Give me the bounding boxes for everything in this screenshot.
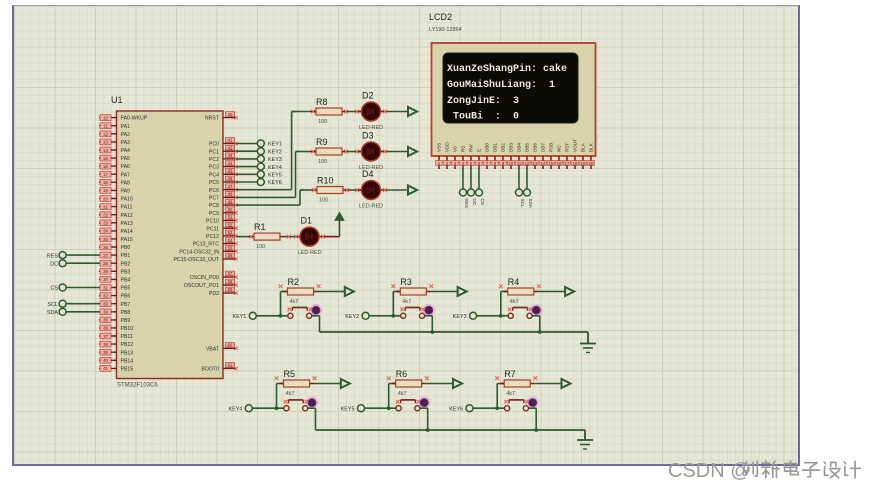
svg-text:PB7: PB7 (121, 302, 131, 308)
svg-text:DB6: DB6 (533, 143, 538, 152)
svg-text:PB6: PB6 (121, 294, 131, 300)
svg-text:47: 47 (228, 184, 233, 189)
svg-text:LED-RED: LED-RED (359, 204, 383, 210)
svg-text:RW: RW (469, 144, 474, 152)
svg-text:LY190-12864: LY190-12864 (429, 27, 462, 33)
svg-text:PA15: PA15 (121, 237, 133, 243)
svg-text:51: 51 (228, 215, 233, 220)
svg-text:PB13: PB13 (121, 350, 134, 356)
svg-text:PC9: PC9 (209, 211, 219, 217)
svg-text:PA10: PA10 (121, 197, 133, 203)
svg-text:49: 49 (228, 199, 233, 204)
svg-text:48: 48 (228, 192, 233, 197)
svg-text:42: 42 (228, 145, 233, 150)
svg-text:KEY6: KEY6 (449, 406, 463, 412)
svg-text:DB3: DB3 (509, 143, 514, 152)
svg-text:34: 34 (103, 310, 108, 315)
svg-text:19: 19 (103, 188, 108, 193)
svg-text:50: 50 (228, 207, 233, 212)
svg-text:12: 12 (103, 132, 108, 137)
svg-text:PC2: PC2 (209, 157, 219, 163)
svg-text:LED-RED: LED-RED (298, 250, 322, 256)
svg-text:PB10: PB10 (121, 326, 134, 332)
svg-text:RST: RST (565, 143, 570, 152)
svg-text:BLA: BLA (581, 142, 586, 152)
svg-text:PB5: PB5 (121, 286, 131, 292)
svg-text:KEY2: KEY2 (268, 149, 282, 155)
svg-text:14: 14 (103, 148, 108, 153)
svg-text:100: 100 (319, 198, 328, 204)
svg-text:PA13: PA13 (121, 221, 133, 227)
svg-text:25: 25 (103, 237, 108, 242)
svg-text:NRST: NRST (205, 116, 220, 122)
svg-text:KEY1: KEY1 (268, 142, 282, 148)
svg-text:40: 40 (228, 112, 233, 117)
svg-text:PB12: PB12 (121, 342, 134, 348)
svg-text:R2: R2 (288, 277, 300, 287)
svg-text:16: 16 (103, 164, 108, 169)
svg-text:PA8: PA8 (121, 180, 131, 186)
svg-text:PC4: PC4 (209, 172, 219, 178)
svg-text:57: 57 (228, 271, 233, 276)
svg-text:56: 56 (228, 253, 233, 258)
svg-text:D4: D4 (362, 169, 374, 179)
svg-text:32: 32 (103, 293, 108, 298)
svg-text:PB8: PB8 (121, 310, 131, 316)
svg-text:33: 33 (103, 302, 108, 307)
svg-text:PA7: PA7 (121, 172, 131, 178)
svg-text:PC0: PC0 (209, 142, 219, 148)
svg-text:RS: RS (461, 146, 466, 152)
svg-text:PC13_RTC: PC13_RTC (193, 242, 220, 248)
svg-text:R6: R6 (396, 369, 408, 379)
svg-text:20: 20 (103, 196, 108, 201)
svg-text:D1: D1 (301, 216, 313, 226)
svg-text:PA6: PA6 (121, 164, 131, 170)
svg-text:15: 15 (103, 156, 108, 161)
svg-text:60: 60 (228, 343, 233, 348)
svg-text:KEY1: KEY1 (233, 314, 247, 320)
svg-text:PA3: PA3 (121, 140, 131, 146)
svg-text:18: 18 (573, 161, 578, 166)
svg-text:38: 38 (103, 342, 108, 347)
svg-text:VSS: VSS (437, 143, 442, 152)
svg-text:59: 59 (228, 287, 233, 292)
svg-text:R10: R10 (317, 176, 334, 186)
svg-text:PA9: PA9 (121, 189, 131, 195)
svg-text:KEY5: KEY5 (341, 406, 355, 412)
svg-text:54: 54 (228, 238, 233, 243)
svg-text:PA4: PA4 (121, 148, 131, 154)
svg-text:PA12: PA12 (121, 213, 133, 219)
svg-text:KEY3: KEY3 (453, 314, 467, 320)
svg-text:23: 23 (103, 221, 108, 226)
svg-text:PC14-OSC32_IN: PC14-OSC32_IN (179, 249, 219, 255)
svg-text:4k7: 4k7 (290, 299, 299, 305)
svg-text:D2: D2 (362, 91, 374, 101)
svg-text:40: 40 (103, 358, 108, 363)
svg-text:15: 15 (549, 161, 554, 166)
svg-text:44: 44 (228, 161, 233, 166)
svg-text:52: 52 (228, 222, 233, 227)
svg-text:CS: CS (480, 199, 485, 205)
svg-text:PB9: PB9 (121, 318, 131, 324)
svg-text:PA5: PA5 (121, 156, 131, 162)
svg-text:SDA: SDA (528, 199, 533, 209)
svg-text:E: E (477, 149, 482, 152)
svg-text:43: 43 (228, 153, 233, 158)
svg-text:PC8: PC8 (209, 203, 219, 209)
svg-text:13: 13 (103, 140, 108, 145)
svg-text:R1: R1 (254, 222, 266, 232)
svg-text:LCD2: LCD2 (429, 12, 452, 22)
svg-text:13: 13 (533, 161, 538, 166)
svg-text:KEY6: KEY6 (268, 180, 282, 186)
svg-text:DC: DC (472, 199, 477, 206)
svg-text:DB2: DB2 (501, 143, 506, 152)
svg-text:PC7: PC7 (209, 196, 219, 202)
svg-text:20: 20 (589, 161, 594, 166)
svg-text:PC10: PC10 (206, 219, 219, 225)
svg-text:RES: RES (464, 199, 469, 208)
svg-text:PC15-OSC32_OUT: PC15-OSC32_OUT (173, 257, 219, 263)
svg-text:18: 18 (103, 180, 108, 185)
svg-text:PB0: PB0 (121, 245, 131, 251)
svg-text:V0: V0 (453, 146, 458, 152)
svg-text:PB15: PB15 (121, 367, 134, 373)
svg-text:TouBi : 0: TouBi : 0 (447, 111, 519, 123)
svg-text:4k7: 4k7 (506, 391, 515, 397)
svg-text:30: 30 (103, 277, 108, 282)
svg-text:17: 17 (103, 172, 108, 177)
svg-text:100: 100 (318, 159, 327, 165)
svg-text:45: 45 (228, 169, 233, 174)
svg-text:PC12: PC12 (206, 234, 219, 240)
svg-text:36: 36 (103, 326, 108, 331)
svg-text:27: 27 (103, 253, 108, 258)
svg-text:KEY4: KEY4 (268, 165, 282, 171)
svg-text:14: 14 (541, 161, 546, 166)
svg-text:ZongJinE: 3: ZongJinE: 3 (447, 95, 519, 107)
svg-text:CS: CS (51, 286, 59, 292)
svg-text:RES: RES (47, 253, 58, 259)
svg-text:PSB: PSB (549, 143, 554, 152)
svg-text:XuanZeShangPin: cake: XuanZeShangPin: cake (447, 63, 567, 75)
svg-text:U1: U1 (111, 95, 123, 105)
svg-text:PB4: PB4 (121, 278, 131, 284)
svg-text:10: 10 (509, 161, 514, 166)
svg-text:4k7: 4k7 (398, 391, 407, 397)
svg-text:DB5: DB5 (525, 143, 530, 152)
svg-text:KEY3: KEY3 (268, 157, 282, 163)
svg-text:29: 29 (103, 269, 108, 274)
svg-text:11: 11 (103, 124, 108, 129)
svg-text:PA11: PA11 (121, 205, 133, 211)
svg-text:NC: NC (557, 145, 562, 152)
svg-text:4k7: 4k7 (510, 299, 519, 305)
svg-text:DB4: DB4 (517, 143, 522, 152)
svg-text:SCL: SCL (48, 302, 59, 308)
svg-text:24: 24 (103, 229, 108, 234)
svg-text:D3: D3 (362, 131, 374, 141)
svg-text:41: 41 (103, 366, 108, 371)
svg-text:PB2: PB2 (121, 261, 131, 267)
svg-text:PD2: PD2 (209, 291, 219, 297)
svg-text:BOOT0: BOOT0 (201, 367, 219, 373)
svg-text:28: 28 (103, 261, 108, 266)
svg-text:OSCOUT_PD1: OSCOUT_PD1 (184, 283, 219, 289)
svg-text:GouMaiShuLiang: 1: GouMaiShuLiang: 1 (447, 79, 555, 91)
svg-text:R3: R3 (400, 277, 412, 287)
svg-text:BLK: BLK (589, 142, 594, 152)
svg-text:4k7: 4k7 (286, 391, 295, 397)
svg-text:PB11: PB11 (121, 334, 133, 340)
svg-text:STM32F103C6: STM32F103C6 (117, 383, 158, 389)
svg-text:PC3: PC3 (209, 165, 219, 171)
svg-text:R7: R7 (504, 369, 516, 379)
svg-text:41: 41 (228, 138, 233, 143)
svg-text:R4: R4 (508, 277, 520, 287)
svg-text:SCL: SCL (520, 199, 525, 208)
svg-text:PC11: PC11 (206, 226, 219, 232)
svg-text:DC: DC (50, 261, 58, 267)
svg-text:21: 21 (103, 204, 108, 209)
svg-text:58: 58 (228, 279, 233, 284)
svg-text:26: 26 (103, 245, 108, 250)
svg-text:55: 55 (228, 246, 233, 251)
svg-text:PA14: PA14 (121, 229, 133, 235)
svg-text:53: 53 (228, 230, 233, 235)
svg-text:4k7: 4k7 (402, 299, 411, 305)
svg-text:PA1: PA1 (121, 124, 131, 130)
svg-text:R5: R5 (284, 369, 296, 379)
svg-text:22: 22 (103, 213, 108, 218)
svg-text:100: 100 (318, 119, 327, 125)
svg-text:R9: R9 (316, 137, 328, 147)
svg-text:SDA: SDA (47, 310, 58, 316)
svg-text:16: 16 (557, 161, 562, 166)
svg-text:35: 35 (103, 318, 108, 323)
svg-text:39: 39 (103, 350, 108, 355)
svg-text:10: 10 (103, 115, 108, 120)
svg-text:KEY5: KEY5 (268, 173, 282, 179)
svg-text:37: 37 (103, 334, 108, 339)
svg-text:DB7: DB7 (541, 143, 546, 152)
svg-text:PC6: PC6 (209, 188, 219, 194)
svg-text:PB14: PB14 (121, 358, 134, 364)
svg-text:OSCIN_PD0: OSCIN_PD0 (190, 275, 220, 281)
svg-text:46: 46 (228, 176, 233, 181)
svg-text:DB0: DB0 (485, 143, 490, 152)
svg-text:VOUT: VOUT (573, 139, 578, 152)
svg-text:PB1: PB1 (121, 253, 131, 259)
svg-text:17: 17 (565, 161, 570, 166)
svg-text:KEY4: KEY4 (229, 406, 243, 412)
svg-text:12: 12 (525, 161, 530, 166)
svg-text:PC5: PC5 (209, 180, 219, 186)
svg-text:61: 61 (228, 363, 233, 368)
svg-text:R8: R8 (316, 97, 328, 107)
svg-text:VDD: VDD (445, 142, 450, 152)
svg-text:KEY2: KEY2 (345, 314, 359, 320)
svg-text:31: 31 (103, 285, 108, 290)
svg-text:19: 19 (581, 161, 586, 166)
svg-text:PC1: PC1 (209, 149, 219, 155)
svg-text:11: 11 (517, 161, 522, 166)
svg-text:PA2: PA2 (121, 132, 131, 138)
svg-text:PA0-WKUP: PA0-WKUP (121, 116, 148, 122)
svg-text:PB3: PB3 (121, 269, 131, 275)
svg-text:CSDN @: CSDN @ (668, 460, 751, 482)
svg-text:DB1: DB1 (493, 143, 498, 152)
svg-text:100: 100 (256, 244, 265, 250)
svg-text:VBAT: VBAT (206, 347, 220, 353)
